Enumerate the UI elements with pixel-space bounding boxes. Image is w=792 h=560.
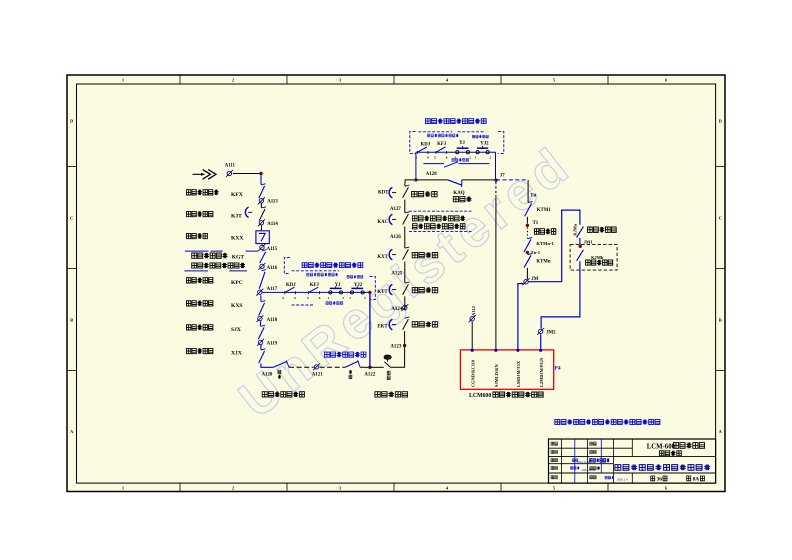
zone ticks and labels — [179, 75, 181, 84]
node A117 — [258, 290, 262, 294]
svg-text:SJMLD/KN: SJMLD/KN — [494, 363, 499, 387]
svg-text:Tn-1: Tn-1 — [531, 250, 541, 255]
svg-text:A118: A118 — [267, 318, 278, 323]
phase relay KXX — [260, 225, 262, 230]
svg-text:P4: P4 — [555, 366, 561, 372]
switch KDT car-top e-stop — [389, 187, 392, 197]
contact KJMb car door B lock — [577, 250, 584, 261]
svg-text:L2MDJM/PGN: L2MDJM/PGN — [539, 357, 544, 387]
wire corner to top run — [405, 180, 416, 186]
svg-text:XJX: XJX — [231, 350, 242, 356]
company name (blue) — [615, 464, 710, 470]
contact KJMa car door A lock — [577, 227, 584, 238]
node A121 — [314, 365, 318, 369]
node A124 — [403, 305, 407, 309]
node A119 — [258, 340, 262, 344]
svg-text:T1: T1 — [533, 221, 539, 226]
connector pin entries — [471, 349, 474, 352]
svg-text:1: 1 — [454, 155, 456, 159]
svg-text:6: 6 — [665, 78, 667, 83]
title block lines — [549, 455, 716, 457]
svg-text:LMDJM/T1X: LMDJM/T1X — [516, 360, 521, 387]
svg-text:A113: A113 — [267, 200, 278, 205]
svg-text:D: D — [719, 119, 722, 124]
text counterweight buffer switch (blue) — [324, 352, 366, 357]
svg-text:J7: J7 — [500, 174, 505, 179]
svg-text:KDJ: KDJ — [286, 283, 296, 288]
svg-text:SJX: SJX — [231, 327, 241, 333]
wire corner up to A123 — [390, 346, 404, 367]
wire A112 to connector — [471, 322, 473, 350]
svg-text:1: 1 — [475, 155, 477, 159]
svg-text:A120: A120 — [262, 373, 273, 378]
junction right end of bypass — [368, 291, 371, 294]
title block outer — [549, 439, 716, 483]
wire down from top run — [527, 180, 529, 203]
bypass row wire — [262, 291, 370, 293]
node A116 — [260, 264, 264, 268]
svg-text:A111: A111 — [225, 163, 236, 168]
junction J7 — [494, 179, 497, 182]
svg-text:YJ2: YJ2 — [480, 141, 489, 146]
svg-text:6: 6 — [319, 296, 321, 300]
top bypass dashed lines and small notes — [418, 131, 452, 133]
sheet background — [67, 75, 725, 492]
text rope wheel switch — [375, 392, 408, 398]
wire bypass down to A122 — [369, 292, 371, 367]
svg-text:KJT: KJT — [231, 214, 242, 220]
svg-text:B: B — [719, 318, 722, 323]
svg-text:JM1: JM1 — [584, 239, 594, 244]
svg-text:2005.1.4: 2005.1.4 — [617, 477, 628, 481]
svg-text:6: 6 — [427, 155, 429, 159]
bottom note (blue) — [555, 419, 660, 424]
svg-text:A121: A121 — [312, 373, 323, 378]
svg-text:A126: A126 — [390, 235, 401, 240]
left bypass bracket right — [370, 277, 376, 300]
bypass verticals — [415, 152, 417, 180]
page numbers — [651, 476, 655, 481]
switch XJX — [260, 345, 262, 350]
revision texts — [572, 459, 578, 462]
junction Tn-1 — [526, 251, 529, 254]
switch KAC safety window — [389, 214, 392, 224]
wire to safety gear contact — [416, 179, 448, 181]
wire to A122 — [360, 366, 370, 368]
switch SJX — [260, 321, 262, 326]
node JM2 — [539, 329, 543, 333]
svg-text:2: 2 — [232, 486, 234, 491]
svg-text:KAC: KAC — [377, 220, 388, 225]
svg-text:A122: A122 — [364, 373, 375, 378]
svg-text:A128: A128 — [426, 172, 437, 177]
svg-text:A114: A114 — [267, 222, 278, 227]
svg-text:1: 1 — [349, 296, 351, 300]
node A118 — [258, 316, 262, 320]
left bypass dashed lines and small notes — [292, 270, 340, 272]
connector P4 red box — [460, 350, 553, 389]
svg-text:KAQ: KAQ — [453, 191, 465, 196]
svg-text:LCM-600: LCM-600 — [647, 444, 676, 451]
svg-text:LCM600: LCM600 — [469, 393, 491, 399]
junction JM1 — [579, 245, 582, 248]
svg-text:A115: A115 — [267, 247, 278, 252]
svg-text:C: C — [719, 216, 722, 221]
svg-text:KGT: KGT — [232, 254, 245, 260]
top bypass bracket left — [410, 132, 416, 154]
wire loop down to JM2 — [541, 261, 580, 328]
switch KTT landing door e-stop — [404, 305, 406, 311]
svg-text:A: A — [70, 429, 73, 434]
junction A122 — [368, 366, 371, 369]
node A115 — [260, 245, 264, 249]
car buffer switch — [273, 361, 287, 367]
svg-text:Tn: Tn — [530, 193, 536, 198]
note (blue) left bypass — [302, 263, 363, 268]
svg-text:3: 3 — [339, 78, 341, 83]
svg-text:B: B — [70, 318, 73, 323]
svg-text:YJ2: YJ2 — [354, 283, 363, 288]
svg-text:D: D — [70, 119, 73, 124]
svg-text:5: 5 — [553, 486, 555, 491]
svg-text:5: 5 — [553, 78, 555, 83]
svg-text:KXX: KXX — [231, 235, 243, 241]
wire JM to connector — [518, 284, 524, 350]
svg-text:KXS: KXS — [231, 303, 243, 309]
node A113 — [259, 199, 263, 203]
rope tension wheel switch — [384, 355, 391, 359]
svg-text:KTMn-1: KTMn-1 — [536, 241, 554, 246]
wire corner to bottom run — [261, 364, 274, 368]
svg-text:1: 1 — [122, 486, 124, 491]
svg-text:3: 3 — [339, 486, 341, 491]
wire J7 to connector — [495, 182, 497, 198]
svg-text:KDJ: KDJ — [421, 142, 431, 147]
switch KGT — [185, 250, 209, 252]
svg-text:C: C — [70, 216, 73, 221]
svg-text:2: 2 — [342, 296, 344, 300]
svg-text:5: 5 — [307, 296, 309, 300]
node A114 — [259, 221, 263, 225]
svg-text:2: 2 — [232, 78, 234, 83]
top bypass bracket right — [498, 132, 504, 154]
svg-text:5: 5 — [282, 296, 284, 300]
wire A111 to chain corner — [233, 173, 261, 175]
junction T1 — [526, 224, 529, 227]
contact KTMn-1 — [524, 239, 531, 252]
svg-text:A: A — [719, 429, 722, 434]
wire A122 to rope switch — [370, 366, 384, 368]
svg-text:2: 2 — [469, 155, 471, 159]
svg-text:6: 6 — [665, 486, 667, 491]
svg-text:KFJ: KFJ — [437, 142, 447, 147]
svg-text:KTMn: KTMn — [536, 259, 550, 264]
counterweight buffer switch — [320, 366, 346, 368]
svg-text:JM2: JM2 — [546, 331, 556, 336]
left bypass bracket left — [284, 258, 290, 274]
svg-text:CGND/KC110: CGND/KC110 — [470, 359, 475, 387]
wire JM to car door loop — [528, 210, 580, 282]
contact KTMn — [524, 255, 531, 267]
A128 branch contact — [424, 163, 445, 165]
svg-text:1: 1 — [122, 78, 124, 83]
svg-text:A124: A124 — [391, 307, 402, 312]
note (blue) top bypass — [425, 119, 486, 124]
junction A128 bypass — [414, 178, 417, 181]
svg-text:KTM1: KTM1 — [537, 208, 551, 213]
svg-text:KJMb: KJMb — [591, 255, 604, 260]
svg-text:KXT: KXT — [377, 255, 388, 260]
node JM — [524, 280, 528, 284]
safety gear switch KAQ — [448, 180, 462, 185]
contact KTM1 — [525, 203, 532, 216]
switch KPC — [259, 272, 265, 289]
svg-text:2004.12.20: 2004.12.20 — [577, 460, 591, 464]
inner border frame — [77, 84, 716, 483]
switch KFX — [260, 174, 262, 185]
svg-text:YJ: YJ — [459, 141, 465, 146]
svg-text:A119: A119 — [267, 342, 278, 347]
svg-text:8A: 8A — [693, 477, 700, 483]
svg-text:6: 6 — [294, 296, 296, 300]
switch KXT car e-stop — [389, 249, 392, 259]
svg-text:36: 36 — [657, 477, 663, 483]
svg-text:A125: A125 — [391, 271, 402, 276]
svg-text:A127: A127 — [390, 207, 401, 212]
svg-text:KDT: KDT — [378, 190, 389, 195]
svg-text:EKT: EKT — [377, 325, 388, 330]
dashed option box car door B — [570, 245, 617, 271]
dashed wire J7 to door lock chain — [496, 179, 528, 181]
svg-text:A117: A117 — [267, 287, 278, 292]
switch KJT — [260, 203, 262, 207]
svg-text:A116: A116 — [267, 266, 278, 271]
text landing door lock — [534, 229, 555, 235]
wire A120-A121 — [289, 366, 314, 368]
svg-text:1: 1 — [328, 296, 330, 300]
svg-text:2: 2 — [364, 296, 366, 300]
svg-text:A112: A112 — [471, 305, 476, 316]
svg-text:5: 5 — [434, 155, 436, 159]
text car buffer switch — [262, 392, 304, 398]
svg-text:KJMa: KJMa — [573, 223, 578, 236]
title block small row labels — [551, 442, 557, 445]
svg-text:A123: A123 — [390, 345, 401, 350]
top bypass row wire — [416, 151, 496, 153]
svg-text:KTT: KTT — [377, 290, 388, 295]
junction A123 — [403, 344, 406, 347]
svg-text:2: 2 — [490, 155, 492, 159]
svg-text:KFX: KFX — [231, 192, 243, 198]
svg-text:KPC: KPC — [231, 280, 243, 286]
input arrow — [193, 173, 205, 175]
svg-text:6: 6 — [446, 155, 448, 159]
dotted repetition wire — [526, 227, 528, 238]
switch KXS — [260, 295, 262, 301]
switch EKT pit e-stop — [404, 331, 406, 346]
